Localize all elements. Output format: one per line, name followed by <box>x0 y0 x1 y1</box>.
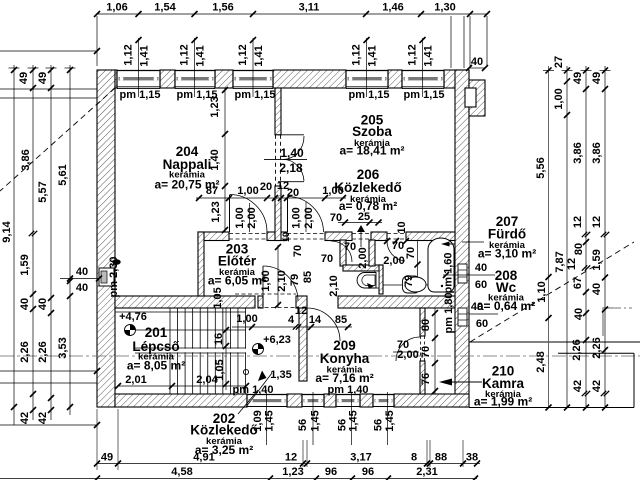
svg-text:38: 38 <box>466 452 478 464</box>
door 210 kamra <box>396 337 420 361</box>
left exterior wall <box>97 70 115 407</box>
svg-text:56: 56 <box>373 419 385 431</box>
svg-text:27: 27 <box>553 56 565 68</box>
svg-text:7,87: 7,87 <box>554 251 566 272</box>
left wall vent <box>99 268 114 286</box>
V1 opening dashed <box>275 135 277 186</box>
kamra leader arrow <box>439 379 452 386</box>
partition V1 upper <box>275 88 281 135</box>
svg-text:201: 201 <box>145 325 168 340</box>
svg-text:2,31: 2,31 <box>416 466 437 478</box>
chain x51 <box>50 65 52 420</box>
svg-text:56: 56 <box>297 419 309 431</box>
chain x70 <box>69 65 71 415</box>
svg-text:3,17: 3,17 <box>350 452 371 464</box>
svg-text:1,46: 1,46 <box>382 2 403 14</box>
207/208 leader dims <box>462 241 484 243</box>
interior wall H1 segment <box>325 232 352 241</box>
svg-text:85: 85 <box>335 314 347 326</box>
window centre dim lines <box>138 38 140 97</box>
diagonal dashed right <box>470 242 634 342</box>
window <box>233 70 273 89</box>
svg-text:a= 7,16 m²: a= 7,16 m² <box>315 371 373 385</box>
window <box>117 70 160 89</box>
svg-text:1,40: 1,40 <box>280 146 304 160</box>
left vent dim <box>60 278 99 280</box>
svg-text:42: 42 <box>19 412 31 424</box>
right dimension chains <box>469 67 485 69</box>
top wall segment <box>160 70 175 88</box>
svg-text:70: 70 <box>330 212 342 224</box>
svg-text:1,30: 1,30 <box>434 2 455 14</box>
window A leader <box>258 371 267 382</box>
svg-text:1,45: 1,45 <box>384 410 396 431</box>
chimney niche <box>465 88 476 107</box>
partition V6 (202/209) <box>299 308 307 381</box>
svg-text:2,00: 2,00 <box>383 255 404 267</box>
svg-text:2,26: 2,26 <box>571 339 583 360</box>
wc bowl <box>403 276 420 293</box>
partition V5 lower <box>420 361 425 394</box>
window <box>302 394 324 407</box>
interior wall H2 segment <box>115 296 255 308</box>
svg-text:16: 16 <box>213 333 225 345</box>
svg-text:1,54: 1,54 <box>154 2 176 14</box>
bottom wall segment <box>360 394 373 407</box>
partition V4 upper <box>369 240 375 266</box>
svg-text:3,86: 3,86 <box>20 149 32 170</box>
svg-text:40: 40 <box>76 266 88 278</box>
svg-text:1,35: 1,35 <box>270 369 291 381</box>
door 206 cell <box>331 241 352 262</box>
sink <box>357 273 376 289</box>
svg-text:70: 70 <box>420 346 432 358</box>
chain x586 <box>585 66 587 408</box>
dims elotér door <box>277 245 279 308</box>
svg-text:Szoba: Szoba <box>352 124 392 139</box>
svg-text:a= 0,78 m²: a= 0,78 m² <box>339 199 397 213</box>
svg-text:pm 1,15: pm 1,15 <box>404 89 445 101</box>
fürdő arrow <box>441 242 450 247</box>
dims 206 cell <box>338 222 382 224</box>
svg-text:79: 79 <box>403 275 415 287</box>
svg-text:12: 12 <box>591 216 603 228</box>
svg-text:2,00: 2,00 <box>246 207 258 228</box>
svg-text:1,05: 1,05 <box>212 287 224 308</box>
svg-text:79: 79 <box>289 274 301 286</box>
svg-text:49: 49 <box>37 72 49 84</box>
svg-text:Közlekedő: Közlekedő <box>334 180 402 195</box>
niche <box>375 271 379 288</box>
svg-text:42: 42 <box>591 380 603 392</box>
svg-text:49: 49 <box>591 72 603 84</box>
bottom dimension chains <box>97 463 480 465</box>
svg-text:9,14: 9,14 <box>1 220 13 242</box>
window <box>175 70 215 89</box>
svg-text:pm 2,30: pm 2,30 <box>108 257 120 298</box>
V5 opening dashed <box>420 336 422 361</box>
svg-text:2,10: 2,10 <box>328 275 340 296</box>
door wc <box>387 241 405 261</box>
H2 opening dashes <box>235 293 296 295</box>
diagonal dashed left <box>0 88 115 191</box>
stairs treads <box>169 308 171 394</box>
chain x14 <box>13 65 15 425</box>
svg-text:4: 4 <box>288 314 295 326</box>
door 209 konyha <box>307 308 340 341</box>
svg-text:70: 70 <box>405 247 417 259</box>
svg-text:80: 80 <box>573 243 585 255</box>
svg-text:70: 70 <box>321 253 333 265</box>
svg-text:1,23: 1,23 <box>210 201 222 222</box>
right exterior wall <box>455 70 469 407</box>
svg-text:1,12: 1,12 <box>407 44 419 65</box>
svg-text:96: 96 <box>362 466 374 478</box>
svg-text:pm 1,80: pm 1,80 <box>443 293 455 334</box>
svg-text:3,11: 3,11 <box>299 2 320 14</box>
hinge dot <box>112 259 120 265</box>
partition V4 lower <box>379 265 383 294</box>
svg-text:20: 20 <box>287 187 299 199</box>
svg-text:2,26: 2,26 <box>37 341 49 362</box>
chain x567 <box>566 66 568 408</box>
svg-text:1,00: 1,00 <box>237 185 258 197</box>
svg-text:pm 1,15: pm 1,15 <box>349 89 390 101</box>
svg-text:1,00: 1,00 <box>236 313 257 325</box>
svg-text:60: 60 <box>476 318 488 330</box>
svg-text:pm 1,40: pm 1,40 <box>233 384 274 396</box>
chain x605 <box>604 66 606 408</box>
svg-text:60: 60 <box>475 279 487 291</box>
svg-text:1,00: 1,00 <box>553 88 565 109</box>
svg-text:1,59: 1,59 <box>591 249 603 270</box>
flue box 2 <box>458 308 467 326</box>
svg-text:1,45: 1,45 <box>310 410 322 431</box>
svg-text:1,10: 1,10 <box>536 281 548 302</box>
window <box>402 70 444 89</box>
stair rail <box>135 352 246 354</box>
leader 202 <box>238 390 258 414</box>
svg-text:5,57: 5,57 <box>37 181 49 202</box>
bottom wall segment <box>394 394 469 407</box>
kamra outline <box>469 341 640 343</box>
svg-text:12: 12 <box>285 452 297 464</box>
svg-text:5,56: 5,56 <box>535 157 547 178</box>
svg-text:4,58: 4,58 <box>171 466 192 478</box>
svg-text:a= 3,10 m²: a= 3,10 m² <box>478 247 536 261</box>
partition V2 <box>198 232 204 296</box>
svg-text:1,00: 1,00 <box>291 207 303 228</box>
svg-text:67: 67 <box>572 277 584 289</box>
window <box>336 394 360 407</box>
svg-text:2,00: 2,00 <box>397 349 418 361</box>
svg-text:2,18: 2,18 <box>279 161 303 175</box>
svg-text:2,26: 2,26 <box>19 341 31 362</box>
svg-text:40: 40 <box>573 308 585 320</box>
svg-text:20: 20 <box>260 181 272 193</box>
svg-text:1,45: 1,45 <box>348 410 360 431</box>
svg-text:+6,23: +6,23 <box>263 334 291 346</box>
svg-text:1,12: 1,12 <box>351 44 363 65</box>
entrance arrow 206 <box>357 225 365 232</box>
svg-text:a= 8,05 m²: a= 8,05 m² <box>127 359 185 373</box>
svg-text:1,23: 1,23 <box>209 96 221 117</box>
svg-text:12: 12 <box>566 258 578 270</box>
svg-text:1,59: 1,59 <box>19 254 31 275</box>
svg-text:42: 42 <box>37 412 49 424</box>
interior wall H1 segment <box>267 232 287 241</box>
svg-text:+4,76: +4,76 <box>119 311 147 323</box>
svg-text:80: 80 <box>420 319 432 331</box>
door 203-205 <box>287 197 289 233</box>
svg-text:40: 40 <box>37 298 49 310</box>
svg-text:2,10: 2,10 <box>276 270 288 291</box>
svg-text:10: 10 <box>396 221 408 233</box>
svg-text:1,00: 1,00 <box>234 207 246 228</box>
top dimension chain <box>97 13 487 15</box>
interior wall H1 segment <box>198 232 229 241</box>
svg-text:a= 18,41 m²: a= 18,41 m² <box>339 144 404 158</box>
top-right wall protrusion <box>469 80 485 116</box>
svg-text:1,12: 1,12 <box>179 44 191 65</box>
dims konyha right <box>434 308 436 394</box>
interior dims 204/205 <box>224 88 226 232</box>
svg-text:5,61: 5,61 <box>57 164 69 185</box>
svg-text:a= 3,25 m²: a= 3,25 m² <box>195 443 253 457</box>
svg-text:pm 1,15: pm 1,15 <box>235 89 276 101</box>
svg-text:3,53: 3,53 <box>57 337 69 358</box>
svg-text:40: 40 <box>471 56 483 68</box>
stair rail <box>135 347 246 349</box>
svg-text:1,12: 1,12 <box>237 44 249 65</box>
svg-text:12: 12 <box>572 216 584 228</box>
svg-text:49: 49 <box>18 72 30 84</box>
bottom wall segment <box>287 394 302 407</box>
window <box>346 70 388 89</box>
partition V5 upper <box>420 308 425 336</box>
svg-text:42: 42 <box>572 380 584 392</box>
bottom wall segment <box>324 394 336 407</box>
svg-text:a= 1,99 m²: a= 1,99 m² <box>474 395 532 409</box>
svg-text:1,06: 1,06 <box>106 2 127 14</box>
left dimension chains <box>9 67 20 69</box>
svg-text:40: 40 <box>19 298 31 310</box>
svg-text:2,01: 2,01 <box>125 374 146 386</box>
chain x33 <box>32 65 34 420</box>
top wall segment <box>273 70 346 88</box>
double door 204-205 <box>278 134 304 136</box>
svg-text:2,26: 2,26 <box>591 337 603 358</box>
svg-text:70: 70 <box>344 241 356 253</box>
svg-text:70: 70 <box>392 240 404 252</box>
walk line circle <box>243 369 248 374</box>
svg-text:pm 1,40: pm 1,40 <box>328 384 369 396</box>
interior wall H1 segment <box>406 232 455 241</box>
svg-text:2,04: 2,04 <box>196 374 218 386</box>
svg-text:40: 40 <box>591 283 603 295</box>
svg-text:2,48: 2,48 <box>535 351 547 372</box>
door jamb block <box>258 296 263 308</box>
partition H3 <box>343 265 383 271</box>
svg-text:1,56: 1,56 <box>212 2 233 14</box>
svg-text:14: 14 <box>309 314 322 326</box>
bathtub <box>428 238 454 292</box>
door 203-204 <box>229 195 231 232</box>
top wall segment <box>115 70 117 88</box>
top wall segment <box>388 70 402 88</box>
svg-text:85: 85 <box>302 271 314 283</box>
svg-text:pm 1,15: pm 1,15 <box>120 89 161 101</box>
svg-text:1,41: 1,41 <box>195 45 207 66</box>
section dash-dot line <box>0 355 640 357</box>
level marker <box>253 344 264 355</box>
svg-text:76: 76 <box>420 373 432 385</box>
interior wall H2 segment <box>296 296 307 308</box>
svg-text:2,00: 2,00 <box>303 207 315 228</box>
svg-text:3,86: 3,86 <box>572 142 584 163</box>
interior wall H1 segment <box>371 232 387 241</box>
svg-text:1,45: 1,45 <box>264 410 276 431</box>
svg-text:a= 20,75 m²: a= 20,75 m² <box>154 178 219 192</box>
svg-text:12: 12 <box>295 305 307 317</box>
window <box>373 394 394 407</box>
svg-text:3,86: 3,86 <box>591 142 603 163</box>
dashed door openings in H1 <box>229 233 267 235</box>
chain x548 <box>548 66 550 408</box>
svg-text:2,00: 2,00 <box>357 247 369 268</box>
svg-text:1,41: 1,41 <box>423 45 435 66</box>
partition V1 lower <box>275 186 281 241</box>
svg-text:1,41: 1,41 <box>139 45 151 66</box>
flue box 1 <box>458 264 467 283</box>
svg-text:8: 8 <box>411 452 417 464</box>
svg-text:10: 10 <box>281 232 291 242</box>
window <box>247 394 287 407</box>
interior wall H2 segment <box>338 296 455 308</box>
thin divider 207/208 <box>383 284 455 286</box>
svg-text:a= 6,05 m²: a= 6,05 m² <box>208 274 266 288</box>
svg-text:40: 40 <box>475 262 487 274</box>
svg-text:49: 49 <box>101 452 113 464</box>
bottom wall segment <box>115 394 247 407</box>
level marker <box>125 325 136 336</box>
stair line <box>115 311 246 313</box>
svg-text:70: 70 <box>292 245 304 257</box>
svg-text:96: 96 <box>325 466 337 478</box>
svg-text:88: 88 <box>435 452 447 464</box>
top wall segment <box>444 70 469 88</box>
svg-text:1,23: 1,23 <box>282 466 303 478</box>
stair line <box>132 329 246 331</box>
partition V3 <box>340 240 346 266</box>
svg-text:1,41: 1,41 <box>367 45 379 66</box>
svg-text:1,12: 1,12 <box>123 44 135 65</box>
svg-text:1,41: 1,41 <box>253 45 265 66</box>
svg-text:49: 49 <box>572 72 584 84</box>
top wall segment <box>215 70 233 88</box>
svg-text:40: 40 <box>76 282 88 294</box>
dims corridor <box>232 326 352 328</box>
svg-text:a= 0,64 m²: a= 0,64 m² <box>477 299 535 313</box>
door 203-202 <box>262 266 264 303</box>
